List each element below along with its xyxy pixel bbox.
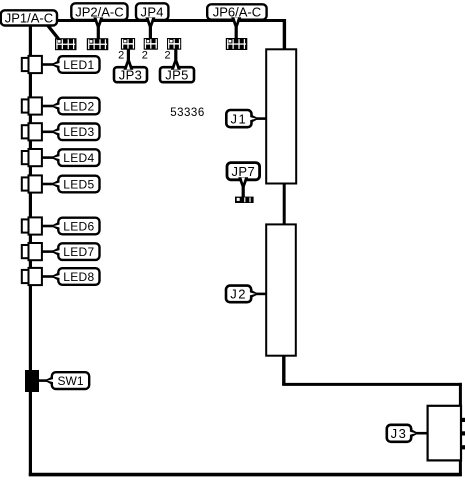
wire: board top edge — [29, 19, 286, 22]
LED LED1 — [22, 58, 30, 71]
svg-text:LED5: LED5 — [63, 177, 94, 191]
wire: leader to LED3 label — [42, 131, 54, 134]
label LED6 — [51, 221, 61, 232]
connector J3 — [428, 406, 461, 461]
svg-text:LED3: LED3 — [63, 125, 94, 139]
wire: leader to LED4 label — [42, 156, 54, 159]
wire: leader J3 label — [416, 432, 428, 435]
wire: leader JP1 label to jumper — [47, 25, 59, 40]
label JP1/A-C — [1, 10, 57, 25]
jumper JP4 (2x2 header) — [144, 38, 158, 50]
label J1 — [249, 113, 259, 124]
connector J3 pins — [461, 418, 465, 422]
label LED3 — [51, 126, 61, 137]
label SW1 — [44, 375, 54, 386]
svg-text:LED2: LED2 — [63, 99, 94, 113]
wire: leader to LED1 label — [42, 63, 54, 66]
svg-text:SW1: SW1 — [57, 374, 83, 388]
jumper JP6 (2x3 header) — [226, 38, 248, 50]
wire: board bottom edge — [29, 473, 462, 477]
wire: lower-right horizontal edge — [282, 383, 462, 386]
LED LED6 — [22, 219, 30, 232]
LED LED7 — [22, 245, 30, 258]
switch SW1 — [25, 370, 39, 392]
LED LED5 — [22, 177, 30, 190]
jumper JP7 (1x3 header) — [235, 197, 254, 203]
svg-text:2: 2 — [118, 49, 124, 61]
label JP5 — [160, 67, 194, 82]
svg-text:JP7: JP7 — [231, 164, 255, 179]
wire: leader to LED8 label — [42, 275, 54, 278]
label LED5 — [51, 179, 61, 190]
label LED8 — [51, 271, 61, 282]
svg-text:2: 2 — [142, 49, 148, 61]
jumper JP5 (2x2 header) — [167, 38, 181, 50]
wire: board left edge — [29, 19, 32, 476]
svg-text:JP1/A-C: JP1/A-C — [5, 11, 53, 26]
svg-text:LED7: LED7 — [63, 245, 94, 259]
label J2 — [249, 289, 259, 300]
jumper JP3 (2x2 header) — [121, 38, 135, 50]
LED LED3 — [22, 125, 30, 138]
svg-text:LED1: LED1 — [63, 58, 94, 72]
wire: board right edge — [459, 383, 462, 476]
svg-text:LED6: LED6 — [63, 219, 94, 233]
wire: leader JP4 label to jumper — [149, 24, 152, 39]
wire: leader JP7 label to jumper — [242, 184, 245, 197]
svg-text:J2: J2 — [230, 287, 247, 302]
label JP4 — [136, 3, 168, 20]
wire: leader to LED2 label — [42, 105, 54, 108]
wire: leader JP2 label to jumper — [97, 24, 100, 39]
wire: leader JP3 label to jumper — [127, 49, 130, 63]
label J3 — [409, 428, 419, 439]
label JP3 — [114, 67, 147, 82]
svg-text:LED8: LED8 — [63, 270, 94, 284]
wire: stub J2 down to lower edge — [282, 354, 285, 386]
label JP7 — [227, 163, 260, 180]
svg-text:JP2/A-C: JP2/A-C — [75, 4, 123, 19]
label JP2/A-C — [71, 3, 127, 20]
svg-text:JP4: JP4 — [141, 4, 164, 19]
label LED2 — [51, 101, 61, 112]
wire: leader JP5 label to jumper — [174, 49, 177, 63]
label LED1 — [51, 59, 61, 70]
wire: leader J1 label — [256, 117, 267, 120]
svg-text:53336: 53336 — [170, 107, 204, 119]
label LED7 — [51, 246, 61, 257]
LED LED2 — [22, 99, 30, 112]
svg-text:J1: J1 — [231, 111, 248, 126]
svg-text:J3: J3 — [391, 426, 408, 441]
jumper JP2 (2x3 header) — [87, 38, 109, 50]
LED LED8 — [22, 270, 30, 283]
LED LED4 — [22, 151, 30, 164]
wire: leader to LED5 label — [42, 183, 54, 186]
svg-text:2: 2 — [165, 49, 171, 61]
wire: leader to LED6 label — [42, 225, 54, 228]
wire: leader J2 label — [256, 293, 267, 296]
svg-text:LED4: LED4 — [63, 151, 94, 165]
wire: leader SW1 label — [39, 379, 49, 382]
wire: leader to LED7 label — [42, 250, 54, 253]
label JP6/A-C — [207, 4, 266, 19]
wire: leader JP6 label to jumper — [235, 24, 238, 39]
wire: stub J1 to J2 — [283, 182, 286, 226]
label LED4 — [51, 152, 61, 163]
wire: top-right stub down to J1 — [283, 19, 286, 51]
connector J2 — [266, 224, 296, 355]
connector J1 — [266, 49, 296, 183]
jumper JP1 (2x3 header) — [55, 38, 77, 50]
